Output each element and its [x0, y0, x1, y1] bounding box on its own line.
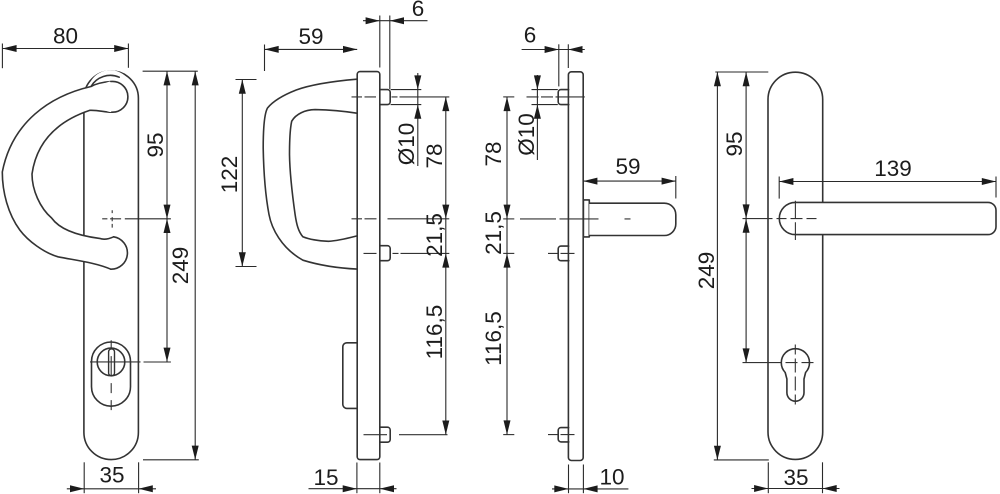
svg-text:59: 59 [615, 154, 640, 179]
bottom extension tick (view 4) [714, 459, 769, 461]
cylinder protrusion (side view 2) [343, 343, 357, 409]
dimension 139 right extension [995, 177, 997, 198]
lever centerline (view 3) [520, 218, 633, 220]
screw head 2 (view 2) [380, 246, 390, 261]
dimension 10 line (view 3) [552, 488, 628, 490]
svg-text:6: 6 [524, 23, 537, 48]
cylinder vertical centerline (view 1) [110, 340, 112, 410]
euro cylinder escutcheon oval (view 1) [92, 342, 131, 406]
dimension Ø10 line (view 3) [536, 75, 538, 160]
screw 1 centerline (view 3) [527, 96, 585, 98]
svg-text:21,5: 21,5 [481, 211, 506, 255]
lever handle (view 4) [779, 202, 996, 234]
pull handle top boss outer circle [88, 70, 133, 115]
Ø10 ext ticks (view 3) [532, 89, 558, 91]
screw head 3 (view 3) [558, 428, 569, 442]
svg-text:59: 59 [298, 24, 323, 49]
pull handle grip tube (view 1) [2, 87, 113, 270]
dimension 95 line + unlabeled lower segment [166, 71, 168, 362]
svg-text:122: 122 [217, 156, 242, 194]
pull handle bottom end circle [111, 237, 128, 269]
dimension 6 line (view 2) [363, 20, 428, 22]
svg-text:139: 139 [874, 156, 912, 181]
svg-text:78: 78 [422, 143, 447, 168]
screw 3 centerline tick (view 3) [503, 434, 514, 436]
screw head 1 (view 2) [380, 90, 390, 105]
screw 1 centerline tick (view 3) [503, 96, 514, 98]
svg-text:15: 15 [313, 465, 338, 490]
dimension Ø10 line (view 2) [417, 73, 419, 166]
dimension 35 ext lines (view 1) [83, 462, 85, 493]
top extension tick (view 4) [715, 71, 768, 73]
arrowheads view 3 [545, 46, 559, 53]
screw head 1 (view 3) [558, 90, 569, 105]
svg-text:10: 10 [599, 465, 624, 490]
dimension 122 [236, 80, 257, 267]
dimension 35 ext lines (view 4) [767, 462, 769, 493]
lever collar (view 3) [583, 200, 589, 237]
arrowheads view 2 [265, 46, 279, 53]
dimension 6 ext lines (view 3) [558, 44, 560, 86]
arrowheads view 1 [2, 45, 16, 52]
view 3 centerlines [503, 97, 633, 435]
dimension 10 ext lines (view 3) [568, 465, 570, 494]
dimension 59 left extension [264, 45, 266, 72]
grip (side view 2) outline [263, 79, 357, 269]
screw 1 centerline (view 2) [352, 96, 450, 98]
svg-text:80: 80 [53, 24, 78, 49]
svg-text:249: 249 [168, 247, 193, 285]
cylinder horizontal centerline (view 1) [90, 361, 141, 363]
svg-text:116,5: 116,5 [422, 305, 447, 360]
svg-text:95: 95 [143, 132, 168, 157]
lever centerline tick (view 3) [503, 218, 514, 220]
dimension 6 ext lines (view 2) [379, 16, 381, 68]
svg-text:95: 95 [722, 131, 747, 156]
screw head 2 (view 3) [558, 246, 569, 261]
dimension 35 line (view 1) [67, 488, 156, 490]
view 2 centerlines [352, 97, 450, 435]
PZ cylinder hole (view 4) [781, 349, 809, 401]
screw head 3 (view 2) [380, 427, 390, 442]
cylinder body circle (view 1) [97, 348, 125, 376]
dimension 59 line (view 2) [265, 48, 358, 50]
dimension 139 line (view 4) [779, 181, 996, 183]
backplate (side view 3) [568, 72, 583, 461]
screw 3 centerline (view 3) [548, 434, 575, 436]
dimension 78/21,5/116,5 line (view 3) [506, 97, 508, 435]
cylinder horizontal centerline + extension (view 4) [743, 362, 814, 364]
svg-text:21,5: 21,5 [422, 213, 447, 257]
dimension 95 + unlabeled line (view 4) [745, 72, 747, 363]
spindle horizontal centerline + extension (view 4) [743, 218, 817, 220]
dimension 59 line (view 3) [583, 180, 676, 182]
Ø10 ext ticks (view 2) [391, 89, 422, 91]
view 3 dimensions [507, 44, 676, 493]
svg-text:6: 6 [412, 0, 425, 21]
backplate (front view 4) [768, 72, 823, 459]
svg-text:Ø10: Ø10 [514, 113, 539, 156]
spindle extension line to dim (view 1) [125, 218, 171, 220]
dimension 15 ext lines (view 2) [356, 463, 358, 494]
grip inner edge curve [32, 110, 114, 239]
view 1 centerlines [90, 210, 141, 410]
view 4 dimensions [714, 72, 996, 493]
lever rod (side view 3) [589, 203, 676, 235]
dimension 95/249 top extension tick [143, 70, 198, 72]
dimension 80 line [2, 48, 128, 50]
cylinder cross vertical (view 4) [794, 345, 796, 405]
pull handle top tube end face circle [97, 81, 128, 112]
dimension 78/21,5/116,5 line (view 2) [445, 97, 447, 435]
svg-text:116,5: 116,5 [481, 311, 506, 366]
dimension 59 right extension (view 3) [675, 176, 677, 199]
grip outer edge curve [2, 82, 111, 270]
svg-text:249: 249 [694, 252, 719, 290]
svg-text:35: 35 [783, 465, 808, 490]
screw 2 centerline (view 3) [548, 252, 575, 254]
backplate (front view, view 1) [84, 71, 138, 460]
svg-text:35: 35 [99, 463, 124, 488]
dimension 35 line (view 4) [752, 488, 840, 490]
view 4 centerlines [743, 201, 817, 405]
spindle cross vertical (view 4) [794, 201, 796, 240]
cylinder keyway slot (view 1) [109, 349, 115, 376]
bottom extension tick (view 1) [143, 459, 199, 461]
dimension 139 left extension [778, 177, 780, 199]
cylinder extension line to dim (view 1) [144, 361, 171, 363]
screw 2 centerline tick (view 3) [503, 252, 514, 254]
spindle center cross (view 1) [102, 218, 121, 220]
dimension 15 line (view 2) [309, 488, 397, 490]
dimension 6 line (view 3) [522, 49, 585, 51]
view 2 dimensions [265, 16, 446, 494]
svg-text:78: 78 [481, 141, 506, 166]
view 1 dimensions [2, 44, 198, 494]
screw 3 centerline (view 2) [364, 434, 448, 436]
screw 2 centerline (view 2) [364, 252, 450, 254]
svg-text:Ø10: Ø10 [394, 123, 419, 166]
backplate (side view 2) [357, 72, 380, 460]
dimension 249 line (view 4) [716, 72, 718, 460]
dimension 249 line (view 1) [194, 71, 196, 460]
arrowheads view 4 [743, 72, 750, 86]
spindle centerline (view 2) [352, 218, 450, 220]
